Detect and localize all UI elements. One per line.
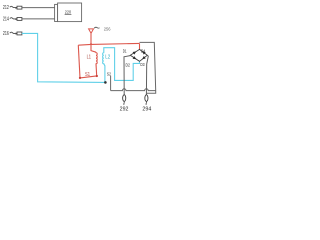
leader squiggle 256 bbox=[94, 26, 99, 29]
wire bridge right vertex to 294 riser bbox=[146, 56, 148, 95]
fuse capsule 292 bbox=[123, 95, 126, 102]
red junction dot bottom right bbox=[96, 75, 98, 77]
wire 212 to bracket bbox=[22, 7, 55, 9]
diode bridge diamond bbox=[130, 49, 147, 61]
diode D1 triangle bbox=[133, 51, 137, 54]
svg-text:L1: L1 bbox=[87, 55, 92, 61]
red junction blob at tee bbox=[90, 43, 92, 45]
bottom rail with hops bbox=[111, 89, 156, 91]
leader squiggle 216 bbox=[10, 32, 15, 33]
inductor L2 coil bbox=[103, 52, 104, 64]
svg-text:214: 214 bbox=[3, 16, 9, 22]
svg-text:S2: S2 bbox=[107, 71, 111, 76]
cyan loop top lead to right side bbox=[104, 48, 140, 81]
connector terminal 214 bbox=[15, 18, 17, 20]
svg-text:292: 292 bbox=[120, 107, 129, 113]
leader squiggle 214 bbox=[10, 18, 15, 19]
svg-text:294: 294 bbox=[142, 107, 151, 113]
black riser below S2 bbox=[110, 76, 112, 91]
connector terminal 216 bbox=[15, 33, 17, 35]
red loop right below coil bbox=[95, 64, 98, 76]
svg-text:D2: D2 bbox=[126, 62, 131, 67]
fuse capsule 294 bbox=[145, 95, 148, 102]
red top horizontal wire to bridge bbox=[78, 43, 139, 45]
connector bracket bbox=[55, 4, 58, 21]
svg-text:216: 216 bbox=[3, 31, 9, 37]
wire bridge left vertex to 292 riser bbox=[124, 56, 130, 95]
leader squiggle 212 bbox=[10, 6, 15, 7]
red wire tee to coil L1 top bbox=[91, 44, 96, 52]
inductor L1 coil bbox=[96, 52, 97, 64]
diode D3 triangle bbox=[142, 56, 146, 59]
stub below 292 bbox=[123, 101, 125, 104]
stub below 294 bbox=[145, 101, 147, 104]
junction dot on bus bbox=[104, 81, 107, 84]
cyan L2 bottom lead to bus dot bbox=[104, 64, 105, 83]
red drop to bridge top vertex bbox=[139, 43, 141, 49]
svg-text:256: 256 bbox=[104, 27, 111, 32]
diode D2 triangle bbox=[133, 56, 137, 59]
power terminal triangle 256 bbox=[89, 29, 94, 33]
svg-text:S1: S1 bbox=[85, 72, 90, 78]
svg-text:220: 220 bbox=[65, 9, 72, 14]
red loop left side bbox=[78, 45, 80, 78]
svg-text:D1: D1 bbox=[123, 48, 127, 53]
outer black wrap from bridge top bbox=[140, 42, 156, 93]
svg-text:D3: D3 bbox=[140, 62, 145, 67]
svg-text:D4: D4 bbox=[141, 48, 146, 53]
box 220 bbox=[58, 3, 82, 22]
red junction dot bottom left bbox=[79, 77, 81, 79]
red wire triangle to tee bbox=[90, 33, 92, 44]
wire 214 to bracket bbox=[22, 18, 55, 20]
wire 216 cyan to bus bbox=[22, 33, 105, 82]
diode D4 triangle bbox=[142, 51, 146, 54]
red loop bottom edge bbox=[80, 76, 97, 78]
svg-text:L2: L2 bbox=[105, 55, 110, 61]
connector terminal 212 bbox=[15, 7, 17, 9]
svg-text:212: 212 bbox=[3, 5, 9, 11]
